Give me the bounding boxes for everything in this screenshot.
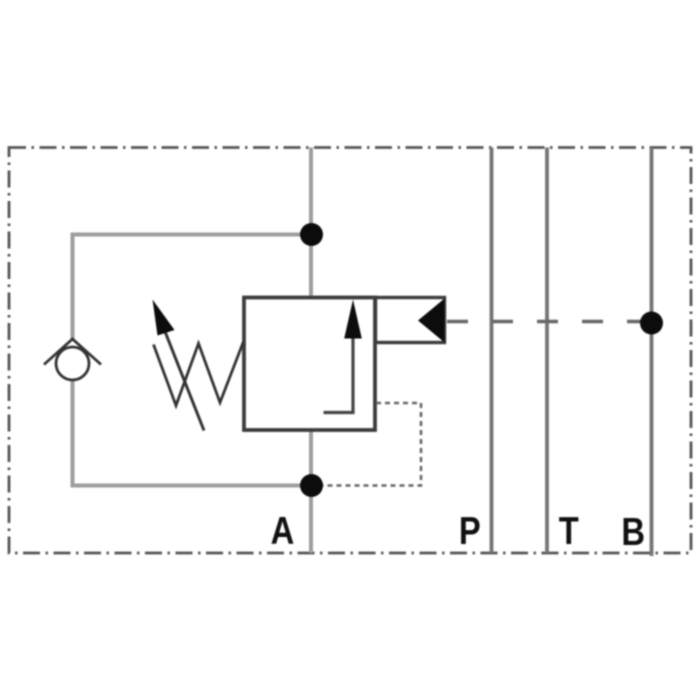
- node 2 (junction dot): [300, 474, 323, 497]
- svg-text:P: P: [459, 508, 481, 552]
- port line T: [545, 148, 549, 554]
- check valve (ball and seat): [44, 339, 101, 380]
- flow arrow inside valve: [324, 300, 362, 413]
- port line B: [650, 148, 654, 557]
- wire: node 1 to valve top: [309, 235, 313, 298]
- node 3 (junction dot on B line): [640, 312, 663, 335]
- port line P: [490, 148, 494, 554]
- adjustment arrow through spring: [153, 300, 205, 431]
- wire: left loop lower (check valve down and right to node 2): [73, 379, 312, 486]
- wire: left loop upper (node 1 left and down to check valve): [73, 235, 312, 341]
- svg-text:B: B: [621, 509, 645, 553]
- adjustable spring (zigzag): [154, 342, 244, 406]
- port label P: [459, 508, 481, 552]
- svg-text:T: T: [559, 508, 579, 552]
- pilot actuator box: [376, 298, 445, 343]
- wire: valve bottom to node 2: [309, 430, 313, 486]
- wire: node 2 to bottom border (port A): [309, 486, 313, 554]
- drain line (fine dashes) from valve to node 2: [323, 403, 421, 486]
- svg-text:A: A: [271, 508, 295, 552]
- relief valve body (square): [244, 298, 375, 431]
- enclosure boundary (dash-dot frame): [9, 148, 691, 554]
- port label T: [559, 508, 579, 552]
- node 1 (junction dot): [300, 223, 323, 246]
- pilot actuator triangle (points left): [418, 299, 445, 343]
- port label A: [271, 508, 295, 552]
- port label B: [621, 509, 645, 553]
- wire: A line top (border to node 1): [309, 148, 313, 236]
- pilot signal line (long dashes) from actuator to B node: [447, 320, 652, 323]
